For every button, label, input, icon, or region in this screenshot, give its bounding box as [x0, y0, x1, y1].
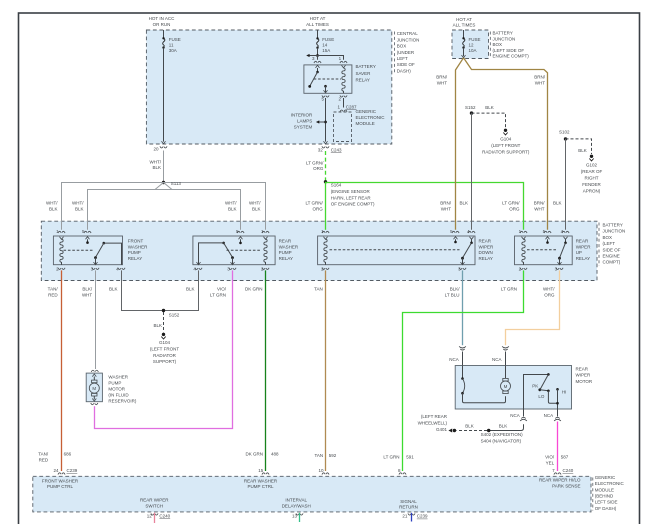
svg-text:BLK: BLK [228, 206, 237, 211]
wire BLK/WHT to washer pump motor [95, 270, 97, 369]
svg-text:BATTERY: BATTERY [356, 64, 376, 69]
svg-text:BLK: BLK [186, 287, 195, 292]
fuse 12 10A [462, 37, 466, 58]
svg-text:WHT: WHT [535, 81, 545, 86]
label G104 right [482, 137, 530, 155]
svg-text:RELAY: RELAY [479, 256, 493, 261]
fuse 12 feed wire [463, 30, 465, 38]
relay top pin numbers [56, 229, 563, 234]
relay K2: rear washer pump relay box [193, 236, 275, 265]
NCA connector below motor (right) [554, 409, 561, 421]
ground G104 (left front radiator support) [161, 333, 165, 339]
pin 20 [153, 147, 159, 152]
svg-text:(LEFT: (LEFT [603, 241, 616, 246]
svg-text:BATTERY: BATTERY [603, 223, 623, 228]
svg-text:BOX: BOX [397, 44, 407, 49]
svg-text:INTERVAL: INTERVAL [285, 498, 307, 503]
connector C240 pin 12 with stub [151, 513, 158, 523]
rear wiper motor M2 box [455, 366, 571, 410]
wire DK GRN 488 rear washer pump ctrl [265, 270, 267, 471]
svg-text:WASHER: WASHER [279, 244, 299, 249]
svg-text:HOT AT: HOT AT [456, 17, 472, 22]
svg-text:TAN/: TAN/ [38, 452, 49, 457]
svg-text:15A: 15A [322, 48, 330, 53]
svg-text:FRONT: FRONT [128, 239, 144, 244]
svg-text:(LEFT FRONT: (LEFT FRONT [491, 143, 520, 148]
fuse 11 30A [162, 37, 166, 144]
label WHT/BLK (top wire) [150, 159, 162, 170]
svg-text:WHT/: WHT/ [225, 201, 237, 206]
svg-text:RESERVOIR): RESERVOIR) [108, 399, 136, 404]
svg-text:C243: C243 [331, 147, 342, 152]
relay bottom pin numbers [56, 267, 558, 272]
label: front washer pump relay [128, 239, 148, 261]
washer pump motor connector (top) [91, 370, 98, 372]
ground G401 (left rear wheelwell) [448, 429, 456, 433]
svg-text:NCA: NCA [449, 357, 459, 362]
svg-text:(IN FLUID: (IN FLUID [108, 393, 129, 398]
label G104 left [150, 340, 179, 364]
rear wiper motor: motor symbol [501, 366, 511, 394]
wire BLK front washer relay pin4 to S152 [122, 270, 164, 310]
wire WHT/BLK lower rail S113 [88, 183, 241, 230]
front washer relay contact-to-pin4 link [103, 242, 122, 265]
label: rear washer pump relay [279, 239, 299, 261]
label: HOT AT ALL TIMES (fuse 12) [453, 17, 476, 28]
svg-text:10A: 10A [469, 48, 477, 53]
wire WHT/BLK upper rail S113 [62, 183, 266, 230]
svg-text:REAR WIPER: REAR WIPER [140, 498, 169, 503]
connector C239 pin 20 [160, 146, 167, 148]
svg-text:WHT/: WHT/ [249, 201, 261, 206]
svg-text:BRN/: BRN/ [534, 75, 546, 80]
wire: fuse 11 feed from HOT IN ACC [163, 30, 165, 38]
rear washer relay coil (pin1-pin2) [264, 237, 268, 265]
front washer relay coil (pin1-pin2) [60, 237, 64, 265]
svg-text:DK GRN: DK GRN [245, 287, 263, 292]
label LT GRN/ORG above down relay [305, 201, 323, 212]
node S113 [162, 181, 165, 184]
svg-text:M: M [504, 384, 508, 389]
rear wiper down relay blade and pin3 [461, 243, 472, 265]
svg-text:RIGHT: RIGHT [585, 176, 599, 181]
rear washer relay pin5 contact [239, 237, 243, 245]
label BRN/WHT (left branch) [436, 75, 448, 86]
svg-text:ORG: ORG [544, 293, 555, 298]
wire color labels below middle box [48, 287, 59, 298]
svg-text:SIGNAL: SIGNAL [400, 499, 417, 504]
label BLK above up relay [553, 201, 562, 206]
rear wiper up relay pin4 contact [564, 237, 568, 244]
svg-text:NCA: NCA [492, 357, 502, 362]
label: interval delay/wash [282, 498, 311, 509]
svg-text:HOT IN ACC: HOT IN ACC [149, 16, 175, 21]
NCA connector above motor (BLK/LT BLU) [459, 346, 466, 365]
svg-text:C239: C239 [67, 468, 78, 473]
svg-text:TAN: TAN [315, 453, 324, 458]
NCA connector below motor (left) [520, 409, 527, 421]
svg-text:DK GRN: DK GRN [245, 452, 263, 457]
wire branch to other circuits (left arrow) [306, 54, 317, 57]
svg-text:FUSE: FUSE [469, 37, 481, 42]
svg-text:G401: G401 [436, 427, 448, 432]
central junction box (dashed, under left side of dash) [146, 30, 391, 144]
svg-text:JUNCTION: JUNCTION [603, 229, 626, 234]
rear wiper up relay dashed link [527, 249, 556, 251]
node S102 [564, 137, 567, 140]
svg-text:VIO/: VIO/ [545, 455, 555, 460]
svg-text:SIDE OF: SIDE OF [603, 247, 621, 252]
svg-text:(LEFT SIDE OF: (LEFT SIDE OF [493, 48, 525, 53]
battery saver relay: pin3 contact stub [316, 65, 320, 73]
svg-text:BLK/: BLK/ [82, 287, 93, 292]
label: generic electronic module (top) [356, 109, 386, 126]
bottom wire labels [38, 452, 71, 463]
wire LT GRN 591 rear wiper up relay pin2 to signal [403, 270, 524, 471]
connector pin 1 battery saver relay [340, 61, 347, 63]
svg-text:DOWN: DOWN [479, 250, 493, 255]
label BLK (S152 splice ground wire) [153, 323, 162, 328]
svg-text:WHT/: WHT/ [543, 287, 555, 292]
svg-text:REAR WASHER: REAR WASHER [244, 478, 278, 483]
svg-text:GENERIC: GENERIC [356, 109, 377, 114]
wire to interior lamps system (left arrow) [316, 120, 326, 123]
svg-text:32: 32 [318, 147, 324, 152]
svg-text:HOT AT: HOT AT [310, 16, 326, 21]
svg-text:(BEHIND: (BEHIND [595, 494, 614, 499]
wire VIO/LT GRN rear washer relay pin3 to washer motor [95, 270, 233, 428]
svg-text:BLK: BLK [553, 201, 562, 206]
svg-text:MODULE: MODULE [356, 121, 375, 126]
svg-text:SAVER: SAVER [356, 71, 372, 76]
label: central junction box [397, 31, 420, 73]
svg-text:MOTOR: MOTOR [108, 387, 125, 392]
svg-text:BLK: BLK [75, 206, 84, 211]
svg-text:PUMP: PUMP [279, 250, 292, 255]
svg-text:LT GRN/: LT GRN/ [305, 201, 323, 206]
svg-text:JUNCTION: JUNCTION [397, 37, 420, 42]
battery junction box (fuse 12, top right) [452, 30, 489, 59]
pin numbers battery saver relay [312, 56, 342, 101]
svg-text:RELAY: RELAY [128, 256, 142, 261]
svg-text:591: 591 [406, 455, 414, 460]
rear wiper motor: PK/LO/HI switch [524, 373, 559, 409]
rear wiper down relay pin4 contact [470, 237, 474, 244]
label BLK (S102 ground wire) [578, 148, 587, 153]
rear wiper down relay coil (pin1-pin2) [324, 237, 328, 265]
svg-text:NCA: NCA [510, 413, 520, 418]
svg-text:ORG: ORG [509, 206, 520, 211]
wire BLK dashed S152 to G104 [472, 113, 506, 128]
svg-text:LEFT: LEFT [397, 56, 408, 61]
connector pin 2 below relay [340, 95, 347, 97]
dashed bracket: battery junction box (middle) label [598, 223, 600, 267]
svg-text:WASHER: WASHER [108, 375, 128, 380]
front washer relay blade and pin3 [94, 243, 104, 265]
svg-text:REAR WIPER HI/LO: REAR WIPER HI/LO [539, 478, 581, 483]
svg-text:RETURN: RETURN [399, 505, 418, 510]
bottom edge pin labels [147, 513, 171, 518]
label LT GRN/ORG above up relay [502, 201, 520, 212]
svg-text:S164: S164 [331, 183, 342, 188]
svg-text:COMPT): COMPT) [603, 260, 621, 265]
svg-text:BLK: BLK [459, 201, 468, 206]
battery saver relay: switch blade [308, 72, 317, 88]
svg-text:PK: PK [532, 383, 538, 388]
label BLK above down relay [459, 201, 468, 206]
svg-text:TAN: TAN [314, 287, 323, 292]
label BRN/WHT (right branch) [534, 75, 546, 86]
label: interior lamps system [291, 112, 313, 129]
wire TAN/RED 686 front washer pump ctrl [61, 270, 63, 471]
svg-text:LO: LO [538, 394, 545, 399]
label: rear wiper motor [576, 366, 593, 384]
NCA connector above motor (WHT/ORG) [502, 346, 509, 365]
node S152 (engine compt) [470, 111, 473, 114]
label: rear wiper up relay [576, 239, 592, 261]
svg-text:(REAR OF: (REAR OF [581, 169, 603, 174]
washer pump motor M1 box [86, 373, 102, 402]
label: rear wiper down relay [479, 239, 495, 261]
svg-text:ELECTRONIC: ELECTRONIC [595, 481, 625, 486]
rear wiper up relay pin5 contact [546, 237, 550, 244]
label: HOT AT ALL TIMES (fuse 14) [306, 16, 329, 27]
wire BLK S152 to rear wiper down relay pin 4 [471, 113, 473, 230]
svg-text:WHT: WHT [441, 206, 451, 211]
battery saver relay: dashed actuator link [314, 78, 341, 80]
svg-text:M: M [92, 386, 96, 391]
svg-text:RED: RED [48, 293, 58, 298]
connectors at battery junction box bottom edge [58, 268, 563, 270]
svg-text:LT GRN: LT GRN [501, 287, 517, 292]
svg-text:(LEFT FRONT: (LEFT FRONT [150, 346, 179, 351]
wire BLK rear washer relay pin4 to S152 [164, 270, 199, 310]
wire TAN 592 interval delay/wash [325, 270, 327, 471]
svg-text:BLK: BLK [485, 105, 494, 110]
ground G104 (left front radiator support) [503, 129, 507, 135]
label: fuse 14 value [322, 37, 334, 53]
connector C239 pin 21 with stub [408, 513, 415, 522]
wire BRN/WHT left branch to rear wiper down relay pin 5 [456, 58, 464, 230]
wire LT GRN/ORG S184 to rear wiper down relay pin 1 [325, 182, 327, 230]
label: signal return [399, 499, 418, 510]
svg-text:C239: C239 [417, 514, 428, 519]
svg-text:TAN/: TAN/ [48, 287, 59, 292]
battery saver relay: pin5 fixed contact [324, 85, 328, 93]
washer pump motor internals [89, 374, 99, 401]
svg-text:OF ENGINE COMPT): OF ENGINE COMPT) [331, 202, 375, 207]
rear washer relay contact-to-pin4 link [197, 242, 225, 265]
svg-text:FUSE: FUSE [169, 37, 181, 42]
svg-text:BRN/: BRN/ [440, 201, 452, 206]
svg-text:(UNDER: (UNDER [397, 50, 415, 55]
svg-text:WIPER: WIPER [479, 244, 495, 249]
svg-text:LEFT SIDE: LEFT SIDE [595, 500, 618, 505]
svg-text:BLK: BLK [465, 424, 474, 429]
svg-text:BLK: BLK [49, 206, 58, 211]
svg-text:RELAY: RELAY [279, 256, 293, 261]
rear wiper motor: curved park contact [461, 366, 505, 403]
label S152 [465, 105, 476, 110]
svg-text:LT BLU: LT BLU [445, 293, 460, 298]
svg-text:MOTOR: MOTOR [576, 379, 593, 384]
svg-text:REAR: REAR [479, 239, 492, 244]
svg-text:30A: 30A [169, 48, 177, 53]
svg-text:HARN, LEFT REAR: HARN, LEFT REAR [331, 195, 372, 200]
label: rear washer pump ctrl [244, 478, 278, 489]
washer pump motor connector (bottom) [91, 403, 98, 405]
connector pin 3 battery saver relay [314, 61, 321, 63]
connectors at battery junction box top edge [58, 231, 569, 233]
dashed bracket: battery junction box (fuse 12) label [489, 32, 491, 59]
wire relay pin5 down [324, 98, 328, 144]
svg-text:ENGINE: ENGINE [603, 254, 620, 259]
svg-text:CENTRAL: CENTRAL [397, 31, 419, 36]
connector pin 13 with stub [296, 513, 303, 522]
svg-text:RADIATOR SUPPORT): RADIATOR SUPPORT) [482, 150, 530, 155]
rear wiper up relay coil (pin1-pin2) [522, 237, 526, 265]
svg-text:LT GRN: LT GRN [383, 455, 399, 460]
relay K1: front washer pump relay box [53, 236, 122, 265]
label LT GRN/ORG (top wire) [306, 160, 324, 171]
ground G102 (rear of right fender apron) [589, 155, 593, 161]
svg-text:NCA: NCA [544, 413, 554, 418]
generic electronic module box (small, top) [334, 112, 352, 142]
label: rear wiper switch [140, 498, 169, 509]
label: battery junction box (fuse 12) [493, 31, 530, 59]
svg-text:APRON): APRON) [583, 188, 601, 193]
battery saver relay: coil pin1-pin2 [342, 65, 346, 93]
node S402/S404 splice [487, 429, 490, 432]
svg-text:ORG: ORG [313, 166, 324, 171]
dashed bracket: central junction box label [394, 32, 396, 74]
svg-text:ELECTRONIC: ELECTRONIC [356, 115, 386, 120]
svg-text:WHT/: WHT/ [46, 201, 58, 206]
svg-text:GENERIC: GENERIC [595, 475, 616, 480]
labels PK LO HI [532, 383, 538, 388]
label BRN/WHT above down relay [440, 201, 452, 212]
svg-text:RELAY: RELAY [356, 77, 370, 82]
svg-text:SYSTEM: SYSTEM [294, 124, 313, 129]
svg-text:WHT: WHT [437, 81, 447, 86]
pin 32 C243 [318, 147, 342, 152]
label BRN/WHT above up relay [534, 201, 546, 212]
svg-text:WHT: WHT [534, 206, 544, 211]
svg-text:S402 (EXPEDITION): S402 (EXPEDITION) [481, 432, 524, 437]
svg-text:DASH): DASH) [397, 68, 412, 73]
svg-text:G104: G104 [500, 137, 512, 142]
svg-text:BLK/: BLK/ [450, 287, 461, 292]
svg-text:(ENGINE SENSOR: (ENGINE SENSOR [331, 189, 371, 194]
svg-text:FUSE: FUSE [322, 37, 334, 42]
svg-text:G102: G102 [586, 163, 598, 168]
svg-text:PUMP: PUMP [128, 250, 141, 255]
node: interior lamps branch [324, 121, 327, 124]
node S184 [324, 180, 327, 183]
svg-text:S102: S102 [559, 130, 570, 135]
svg-text:PUMP CTRL: PUMP CTRL [248, 484, 274, 489]
svg-text:24: 24 [53, 468, 59, 473]
svg-text:BLK: BLK [152, 165, 161, 170]
svg-text:12: 12 [147, 513, 153, 518]
bottom pin numbers [53, 468, 77, 473]
svg-text:10: 10 [318, 468, 324, 473]
svg-text:14: 14 [322, 43, 328, 48]
wire to battery saver relay pin 1 [318, 56, 344, 60]
svg-text:S152: S152 [169, 312, 180, 317]
wire BLK dashed splice to G401 [457, 430, 488, 432]
wire BRN/WHT right branch to rear wiper up relay pin 5 [464, 58, 548, 230]
label S184 engine sensor harness [331, 183, 375, 207]
generic electronic module (bottom box) [33, 476, 591, 512]
connector C243 pin 32 [322, 146, 329, 148]
labels WHT/BLK above washer relays [46, 201, 58, 212]
svg-text:WIPER: WIPER [576, 244, 592, 249]
wire VIO/YEL 587 motor to park sense [557, 422, 559, 472]
label: fuse 12 value [469, 37, 481, 53]
label S102 [559, 130, 570, 135]
svg-text:LT GRN/: LT GRN/ [502, 201, 520, 206]
rear wiper up relay blade and pin3 [558, 243, 566, 265]
svg-text:(LEFT REAR: (LEFT REAR [421, 414, 448, 419]
svg-text:PUMP CTRL: PUMP CTRL [47, 484, 73, 489]
op: battery saver relay U1 box [304, 65, 352, 93]
label: battery saver relay [356, 64, 376, 82]
svg-text:WHT/: WHT/ [72, 201, 84, 206]
connector pin 5 below relay [322, 95, 329, 97]
dashed bracket: generic electronic module label [592, 478, 594, 511]
svg-text:SIDE OF: SIDE OF [397, 62, 415, 67]
svg-text:12: 12 [469, 43, 475, 48]
front washer relay pin5 contact [86, 237, 90, 244]
svg-text:LT GRN: LT GRN [210, 293, 226, 298]
svg-text:ENGINE COMPT): ENGINE COMPT) [493, 54, 530, 59]
svg-text:OR RUN: OR RUN [153, 22, 171, 27]
svg-text:WHT/: WHT/ [150, 159, 162, 164]
rear washer relay dashed link [227, 249, 262, 251]
label S113 [171, 181, 182, 186]
connector C287 pin 1 (GEM) [340, 110, 347, 112]
wire BLK dashed S102 to G102 [566, 139, 592, 154]
svg-text:592: 592 [329, 453, 337, 458]
wire WHT/BLK from pin 20 to S113 [163, 151, 165, 183]
svg-text:WIPER: WIPER [576, 373, 592, 378]
svg-text:C240: C240 [563, 468, 574, 473]
svg-text:587: 587 [561, 455, 569, 460]
svg-text:20: 20 [153, 147, 159, 152]
svg-text:C240: C240 [159, 513, 170, 518]
svg-text:WHT: WHT [82, 293, 92, 298]
svg-text:BLK: BLK [499, 424, 508, 429]
wire to battery saver relay pin 3 [317, 56, 319, 60]
wire BLK/LT BLU rear wiper down relay pin3 to motor [462, 270, 464, 345]
wire relay pin2 to C287 [343, 98, 345, 108]
svg-text:RADIATOR: RADIATOR [153, 353, 177, 358]
label G401 left rear wheelwell [418, 414, 448, 432]
svg-text:OF DASH): OF DASH) [595, 506, 617, 511]
svg-text:MODULE: MODULE [595, 487, 614, 492]
svg-text:SWITCH: SWITCH [145, 504, 163, 509]
svg-text:WHEELWELL): WHEELWELL) [418, 421, 448, 426]
svg-text:488: 488 [271, 452, 279, 457]
svg-text:G104: G104 [159, 340, 171, 345]
label S152 splice [169, 312, 180, 317]
svg-text:BOX: BOX [603, 235, 613, 240]
rear wiper down relay pin5 contact [454, 237, 458, 244]
svg-text:PUMP: PUMP [108, 381, 121, 386]
svg-text:BRN/: BRN/ [534, 201, 546, 206]
svg-text:JUNCTION: JUNCTION [493, 36, 516, 41]
